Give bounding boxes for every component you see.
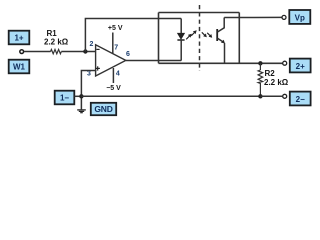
phototransistor collector [218, 18, 225, 33]
LED D1 anode wire [180, 19, 182, 34]
junction feedback/inverting input [83, 49, 87, 53]
wire: non-inverting input to ground corner [81, 71, 96, 110]
svg-text:GND: GND [94, 104, 112, 114]
phototransistor emitter with arrow [218, 38, 224, 42]
resistor R2 (vertical zigzag) [258, 63, 263, 96]
svg-text:2.2 kΩ: 2.2 kΩ [264, 78, 289, 87]
svg-text:−5 V: −5 V [106, 85, 121, 92]
wire: R1 to op-amp inverting input [61, 51, 96, 53]
wavegen label box W1 [9, 60, 30, 74]
Vp terminal circle [282, 15, 286, 19]
svg-text:4: 4 [116, 70, 120, 77]
pin 7 positive supply wire [112, 33, 114, 54]
svg-text:R2: R2 [265, 69, 276, 78]
op-amp U1 triangle [96, 45, 126, 76]
wire bottom rail to 2- circle [260, 95, 282, 97]
svg-text:Vp: Vp [295, 13, 305, 22]
LED light emission arrow 2 [191, 30, 197, 36]
optocoupler box bottom edge continuing as 2+ wire [159, 62, 283, 64]
wire: node to R1 [24, 51, 51, 53]
bottom ground rail wire [81, 95, 260, 97]
LED D1 cathode bar [177, 39, 184, 41]
phototransistor Q1 base bar [216, 29, 218, 41]
resistor R1 (zigzag) [51, 49, 62, 53]
scope channel label box 2+ [290, 59, 311, 73]
wire: op-amp output to LED cathode [126, 60, 181, 62]
scope channel label box 2- [290, 92, 311, 106]
minus mark (inverting input) [96, 48, 99, 50]
svg-text:2+: 2+ [296, 62, 305, 71]
svg-text:2−: 2− [296, 95, 305, 104]
LED light emission arrow 1 [186, 34, 192, 40]
svg-text:2.2 kΩ: 2.2 kΩ [44, 38, 69, 47]
light reception arrow 1 [202, 32, 207, 37]
svg-text:7: 7 [114, 45, 118, 52]
collector wire to Vp [224, 16, 282, 18]
plus mark (non-inverting input) [96, 67, 100, 69]
power supply label box Vp [289, 10, 310, 24]
2- terminal circle [283, 94, 287, 98]
svg-text:1+: 1+ [14, 34, 23, 43]
scope channel label box 1+ [9, 31, 30, 45]
svg-text:1−: 1− [60, 94, 69, 103]
junction dot R2 top [258, 61, 262, 65]
scope channel label box 1- [55, 91, 75, 105]
LED D1 cathode wire [180, 40, 182, 61]
optocoupler package box [159, 13, 240, 64]
svg-text:+5 V: +5 V [108, 25, 123, 32]
GND label box [91, 103, 116, 115]
svg-text:R1: R1 [47, 29, 58, 38]
svg-text:3: 3 [87, 71, 91, 78]
junction dot R2 bottom [258, 94, 262, 98]
light reception arrow 2 [207, 33, 212, 38]
node W1/1+ (open circle terminal) [20, 50, 24, 54]
svg-text:2: 2 [90, 41, 94, 48]
ground symbol [77, 110, 86, 113]
feedback wire up and over to LED anode [85, 19, 181, 52]
svg-text:6: 6 [126, 51, 130, 58]
wire: 1- box to ground junction [75, 95, 82, 97]
junction dot at ground node [79, 94, 83, 98]
svg-text:W1: W1 [13, 63, 26, 72]
emitter wire down to output wire [224, 43, 226, 63]
pin 4 negative supply wire [112, 68, 114, 83]
2+ terminal circle [283, 61, 287, 65]
optocoupler box right edge (pin rail) [238, 13, 240, 64]
LED D1 triangle [177, 33, 184, 39]
isolation barrier dashed line [199, 5, 201, 71]
